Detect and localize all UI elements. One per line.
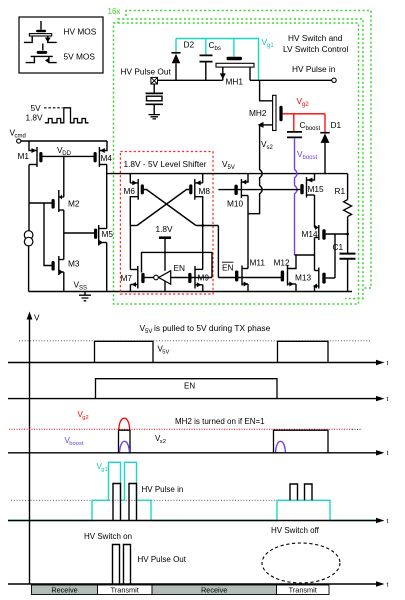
svg-text:M8: M8 bbox=[199, 186, 211, 196]
label MH1 bbox=[226, 77, 244, 87]
label M3 bbox=[68, 259, 80, 269]
label M5 bbox=[102, 229, 114, 239]
timing HV Pulse Out pulses bbox=[113, 545, 131, 585]
svg-text:V: V bbox=[34, 313, 40, 323]
transistor M12 bbox=[281, 255, 296, 287]
wire MH2 drain branch bbox=[260, 80, 273, 101]
svg-text:HV MOS: HV MOS bbox=[64, 27, 97, 37]
label V5V bbox=[222, 159, 235, 171]
svg-text:g2: g2 bbox=[82, 415, 88, 421]
transistor M5 bbox=[94, 225, 107, 246]
transistor M8 bbox=[189, 174, 203, 226]
label M13 bbox=[295, 273, 312, 283]
svg-text:g1: g1 bbox=[267, 43, 274, 49]
transistor MH1 bbox=[216, 57, 254, 81]
wire HV Pulse Out node bbox=[157, 79, 222, 81]
label VSS bbox=[74, 280, 88, 292]
svg-text:D1: D1 bbox=[331, 120, 342, 130]
svg-text:M13: M13 bbox=[295, 273, 312, 283]
label Vboost timing bbox=[65, 436, 84, 447]
timing HV Pulse in pulses left bbox=[113, 484, 137, 521]
timing row HVout axis bbox=[8, 581, 389, 588]
wire M13 gate stub bbox=[326, 277, 335, 279]
wire current source to bus bbox=[28, 246, 30, 292]
transistor M9 bbox=[188, 266, 203, 289]
wire M14 gate node down to M13 gate bbox=[334, 234, 336, 278]
repeated cell outline front box bbox=[114, 23, 359, 304]
level shifter red dashed box bbox=[120, 152, 213, 295]
legend HV MOS text bbox=[64, 27, 97, 37]
svg-text:boost: boost bbox=[303, 155, 318, 161]
svg-text:R1: R1 bbox=[335, 186, 346, 196]
timing row HVin axis bbox=[8, 518, 389, 525]
label M12 bbox=[274, 258, 291, 268]
wire MH1 source to HV Pulse in terminal bbox=[250, 79, 332, 81]
label HV Pulse in bbox=[292, 64, 336, 74]
wire V5V rail bbox=[107, 173, 348, 175]
label 16x bbox=[108, 7, 121, 16]
transistor M6 bbox=[130, 174, 144, 226]
wire M10 drain down to M11 bbox=[247, 196, 249, 269]
label EN_bar bbox=[222, 262, 234, 272]
svg-text:t: t bbox=[387, 396, 389, 403]
label Cbs bbox=[209, 40, 221, 52]
resistor R1 bbox=[344, 174, 352, 253]
label HV Switch off bbox=[271, 526, 320, 535]
svg-text:M7: M7 bbox=[121, 273, 133, 283]
svg-text:cmd: cmd bbox=[15, 134, 26, 140]
svg-text:M12: M12 bbox=[274, 258, 291, 268]
wire Vs2 with hops bbox=[248, 125, 262, 214]
svg-text:s2: s2 bbox=[267, 145, 274, 151]
timing HV Pulse in pulses right bbox=[290, 484, 312, 500]
wire node to M5 gate bbox=[64, 232, 94, 234]
transistor M7 bbox=[130, 266, 144, 289]
svg-text:s2: s2 bbox=[160, 439, 166, 445]
svg-text:1.8V: 1.8V bbox=[156, 224, 174, 234]
svg-text:g1: g1 bbox=[101, 467, 107, 473]
svg-text:boost: boost bbox=[69, 441, 84, 447]
svg-text:5V: 5V bbox=[145, 329, 152, 335]
timing row V5V waveform bbox=[95, 341, 329, 362]
transistor MH2 bbox=[258, 95, 283, 130]
wire M14 source down bbox=[314, 238, 316, 256]
svg-text:t: t bbox=[387, 582, 389, 589]
transistor M13 bbox=[313, 268, 326, 289]
timing row V5V dotted level bbox=[19, 340, 370, 342]
timing row EN axis bbox=[8, 396, 389, 403]
legend 5V MOS symbol bbox=[26, 44, 57, 64]
label Cboost bbox=[300, 120, 321, 132]
label R1 bbox=[335, 186, 346, 196]
timing row HVin dotted level bbox=[11, 499, 330, 501]
transistor M4 bbox=[94, 141, 108, 167]
svg-text:M15: M15 bbox=[308, 184, 325, 194]
label HV Switch and LV Switch Control bbox=[283, 33, 348, 54]
wire inverter out to M7 gate bbox=[144, 277, 154, 279]
svg-text:5V: 5V bbox=[31, 103, 42, 113]
Vcmd waveform legend: 1.8V level and pulse train bbox=[26, 108, 89, 123]
transistor M11 bbox=[235, 266, 248, 287]
timing V axis bbox=[27, 312, 40, 585]
wire M7 source to bus bbox=[129, 285, 131, 292]
svg-text:HV Pulse in: HV Pulse in bbox=[142, 485, 184, 494]
svg-text:M10: M10 bbox=[227, 199, 244, 209]
label 1.8V supply bbox=[156, 224, 174, 234]
wire Vg2 red bbox=[283, 114, 325, 132]
svg-text:M4: M4 bbox=[101, 153, 113, 163]
svg-text:M9: M9 bbox=[198, 273, 210, 283]
wire left cross node bbox=[130, 225, 137, 227]
wire M1 drain to M2/M3 gate rail bbox=[29, 203, 52, 266]
wire M3 source to bus bbox=[63, 272, 65, 292]
label EN on waveform bbox=[184, 382, 195, 391]
label M2 bbox=[68, 199, 80, 209]
svg-text:5V: 5V bbox=[162, 349, 169, 355]
svg-text:1.8V - 5V Level Shifter: 1.8V - 5V Level Shifter bbox=[124, 159, 207, 169]
svg-text:C1: C1 bbox=[333, 242, 344, 252]
svg-text:HV Pulse in: HV Pulse in bbox=[292, 64, 336, 74]
label Vg2 timing bbox=[78, 410, 89, 421]
svg-text:t: t bbox=[387, 450, 389, 457]
timing Vboost bump 2 bbox=[276, 441, 286, 452]
svg-text:Receive: Receive bbox=[51, 585, 77, 594]
label M14 bbox=[302, 229, 319, 239]
label M4 bbox=[101, 153, 113, 163]
capacitor Cboost bbox=[287, 132, 302, 138]
svg-text:EN: EN bbox=[174, 263, 186, 273]
svg-text:5V: 5V bbox=[228, 165, 235, 171]
svg-text:is pulled to 5V during TX phas: is pulled to 5V during TX phase bbox=[154, 323, 271, 333]
svg-text:HV Switch off: HV Switch off bbox=[271, 526, 320, 535]
svg-text:D2: D2 bbox=[184, 40, 195, 50]
label HV Pulse Out timing bbox=[138, 555, 187, 564]
terminal HV Pulse in bbox=[332, 78, 336, 82]
diode D1 bbox=[320, 133, 329, 174]
svg-text:M3: M3 bbox=[68, 259, 80, 269]
wire EN input to M9 gate bbox=[171, 277, 212, 279]
capacitor Cbs bbox=[200, 55, 213, 80]
wire cross coupling M6 gate to right node bbox=[144, 190, 196, 226]
Vcmd waveform legend: 5V level bbox=[31, 103, 63, 113]
wire M12 source to bus bbox=[295, 284, 297, 292]
current source I1 bbox=[24, 231, 33, 246]
label VDD bbox=[57, 145, 72, 157]
svg-text:EN: EN bbox=[184, 382, 195, 391]
wire EN_bar vertical bbox=[217, 226, 219, 278]
wire M5 source to bus bbox=[106, 243, 108, 292]
wire M9 drain bbox=[202, 226, 204, 270]
supply bar 1.8V bbox=[159, 238, 171, 271]
label M8 bbox=[199, 186, 211, 196]
wire M1 gate to M4 gate (VDD rail) bbox=[43, 155, 94, 157]
svg-text:M11: M11 bbox=[250, 258, 266, 268]
transistor M10 bbox=[234, 174, 248, 198]
wire EN_bar to M11 M12 gates bbox=[218, 277, 281, 279]
transistor M15 bbox=[300, 174, 314, 198]
svg-text:t: t bbox=[387, 518, 389, 525]
svg-text:M1: M1 bbox=[18, 151, 30, 161]
label Vs2 on waveform bbox=[155, 434, 166, 445]
transducer below HV Pulse Out bbox=[146, 84, 164, 115]
node dot output bbox=[201, 224, 204, 227]
phase bar Receive 2 bbox=[152, 585, 277, 595]
label Vg1 timing bbox=[97, 462, 108, 473]
label M1 bbox=[18, 151, 30, 161]
svg-text:1.8V: 1.8V bbox=[26, 113, 44, 123]
svg-text:M6: M6 bbox=[124, 186, 136, 196]
svg-text:HV Pulse Out: HV Pulse Out bbox=[138, 555, 187, 564]
wire right cross node to EN_bar output bbox=[196, 225, 218, 227]
phase bar Transmit 2 bbox=[277, 585, 330, 595]
wire VDD rail down to M2 drain bbox=[63, 156, 65, 197]
wire M1 drain down left rail bbox=[28, 165, 30, 231]
wire M2 source to M3 drain bbox=[63, 210, 65, 260]
svg-text:LV Switch Control: LV Switch Control bbox=[283, 44, 348, 54]
repeated cell outline middle box bbox=[118, 19, 363, 299]
capacitor C1 bbox=[340, 254, 356, 292]
wire M4 drain to M5 drain bbox=[106, 165, 108, 229]
label C1 bbox=[333, 242, 344, 252]
node Vcmd label bbox=[10, 128, 26, 140]
label D2 bbox=[184, 40, 195, 50]
svg-text:M5: M5 bbox=[102, 229, 114, 239]
label MH2 bbox=[249, 108, 267, 118]
wire drain node 255 bbox=[295, 254, 315, 256]
svg-text:M2: M2 bbox=[68, 199, 80, 209]
wire M13 source to bus bbox=[314, 286, 316, 292]
timing Vg2 bump red bbox=[119, 418, 130, 429]
wire EN routing loop bbox=[142, 252, 213, 277]
svg-text:MH2: MH2 bbox=[249, 108, 267, 118]
timing Vboost bump 1 bbox=[120, 441, 130, 452]
wire M13 drain up bbox=[314, 255, 316, 271]
label M10 bbox=[227, 199, 244, 209]
wire M14 gate to R1/C1 node bbox=[326, 233, 348, 235]
inverter U1 bbox=[154, 271, 171, 292]
label M9 bbox=[198, 273, 210, 283]
label M15 bbox=[308, 184, 325, 194]
timing row V5V annotation bbox=[140, 323, 271, 335]
label M11 bbox=[250, 258, 266, 268]
svg-text:EN: EN bbox=[222, 263, 234, 273]
transistor M3 bbox=[52, 256, 64, 275]
svg-text:SS: SS bbox=[79, 286, 87, 292]
legend HV MOS symbol bbox=[24, 21, 57, 42]
timing annotation MH2 bbox=[175, 417, 265, 426]
svg-text:g2: g2 bbox=[302, 102, 309, 108]
label HV Pulse Out bbox=[121, 67, 172, 77]
timing row V5V axis bbox=[8, 360, 389, 367]
wire cross coupling M8 gate to left node bbox=[137, 190, 189, 226]
svg-text:5V MOS: 5V MOS bbox=[64, 52, 96, 62]
label D1 bbox=[331, 120, 342, 130]
phase bar Transmit 1 bbox=[98, 585, 153, 595]
label M6 bbox=[124, 186, 136, 196]
Vcmd input terminal bbox=[17, 139, 21, 143]
timing row EN waveform bbox=[96, 379, 278, 399]
terminal HV Pulse Out bbox=[151, 77, 158, 84]
node dot R1 C1 M14 bbox=[346, 233, 349, 236]
svg-text:MH1: MH1 bbox=[226, 77, 244, 87]
wire Vcmd to M1/M4 sources bbox=[21, 140, 107, 142]
timing row Vs2 axis bbox=[8, 450, 389, 457]
ground below transducer bbox=[149, 115, 161, 119]
label HV Switch on bbox=[84, 532, 132, 541]
label Vg2 bbox=[297, 96, 310, 108]
svg-text:Transmit: Transmit bbox=[289, 585, 317, 594]
svg-text:boost: boost bbox=[306, 126, 321, 132]
ground VSS bbox=[79, 292, 91, 301]
label M7 bbox=[121, 273, 133, 283]
svg-text:bs: bs bbox=[215, 46, 221, 52]
diode D2 bbox=[172, 53, 181, 81]
legend 5V MOS text bbox=[64, 52, 96, 62]
wire M7 drain bbox=[129, 226, 131, 270]
timing Vg1 cyan waveform bbox=[8, 462, 377, 520]
wire Vboost purple with hops bbox=[295, 138, 298, 255]
wire M10/M15 gate rail bbox=[218, 189, 300, 191]
timing red dotted Vg2 level bbox=[9, 428, 362, 430]
transistor M2 bbox=[52, 190, 64, 212]
repeated cell outline back box bbox=[126, 11, 371, 289]
label HV Pulse in timing bbox=[142, 485, 184, 494]
wire Vg1 cyan bus bbox=[176, 39, 259, 80]
transistor M1 bbox=[29, 141, 43, 167]
svg-text:M14: M14 bbox=[302, 229, 319, 239]
svg-text:Receive: Receive bbox=[201, 585, 227, 594]
wire cyan to MH1 gate bbox=[233, 39, 235, 57]
svg-text:HV Switch on: HV Switch on bbox=[84, 532, 132, 541]
wire cyan to D2 cathode bbox=[175, 39, 177, 53]
svg-text:HV Switch and: HV Switch and bbox=[288, 33, 343, 43]
legend box bbox=[19, 17, 103, 73]
label V5V on waveform bbox=[158, 345, 170, 356]
label Vg1 bbox=[262, 37, 275, 49]
wire M9 source to bus bbox=[202, 285, 204, 292]
wire M11 source to bus bbox=[247, 284, 249, 292]
dashed ellipse no output bbox=[262, 543, 340, 583]
svg-text:t: t bbox=[387, 360, 389, 367]
label EN bbox=[174, 263, 186, 273]
wire M15 drain to M14 drain bbox=[314, 195, 316, 228]
svg-text:16x: 16x bbox=[108, 7, 121, 16]
phase bar Receive 1 bbox=[32, 585, 98, 595]
wire VSS bus bbox=[29, 291, 352, 293]
transistor M14 bbox=[315, 225, 326, 240]
svg-text:HV Pulse Out: HV Pulse Out bbox=[121, 67, 172, 77]
timing row Vs2 waveform bbox=[119, 430, 329, 453]
svg-text:Transmit: Transmit bbox=[111, 585, 139, 594]
label Vboost bbox=[297, 149, 318, 161]
wire cyan to Cbs top bbox=[205, 39, 207, 55]
svg-text:MH2 is turned on if EN=1: MH2 is turned on if EN=1 bbox=[175, 417, 265, 426]
label 1.8V - 5V Level Shifter bbox=[124, 159, 207, 169]
label Vs2 bbox=[261, 139, 274, 151]
